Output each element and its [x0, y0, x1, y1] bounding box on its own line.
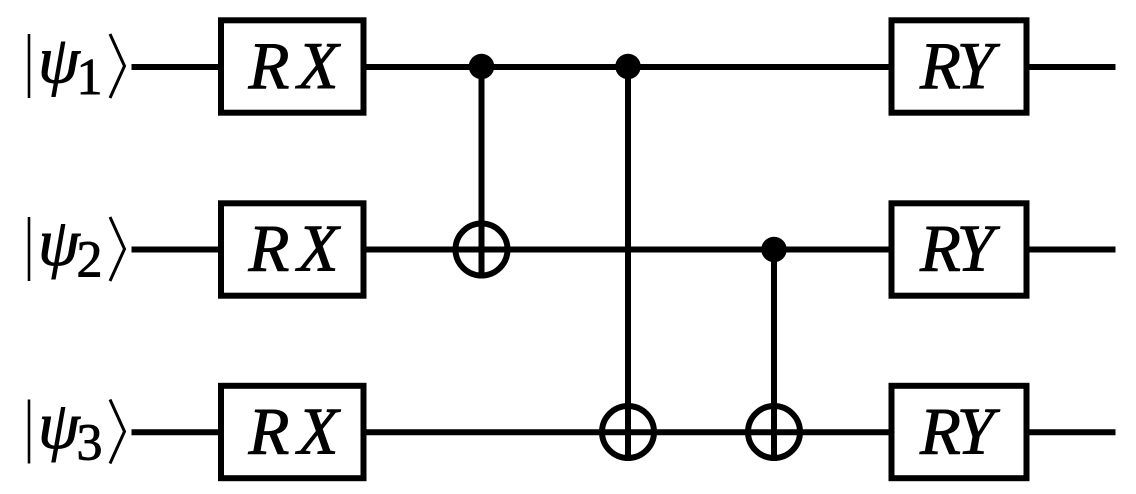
- svg-text:ψ: ψ: [38, 206, 81, 280]
- svg-text:2: 2: [77, 232, 103, 289]
- svg-text:ψ: ψ: [38, 24, 81, 98]
- svg-text:ψ: ψ: [38, 389, 81, 463]
- svg-text:RY: RY: [919, 29, 1001, 103]
- svg-text:RY: RY: [919, 395, 1001, 469]
- svg-text:1: 1: [77, 49, 103, 106]
- svg-text:3: 3: [77, 414, 103, 471]
- svg-text:RY: RY: [919, 212, 1001, 286]
